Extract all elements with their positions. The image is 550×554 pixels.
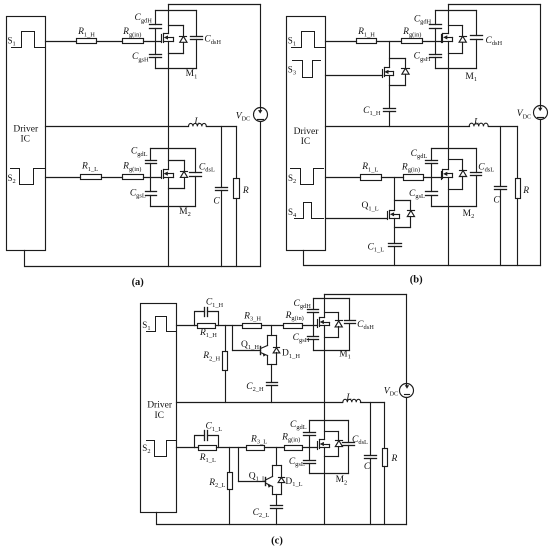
- C1_H branch (c): [195, 312, 205, 326]
- diode D of Q1_H (c): [273, 348, 280, 353]
- resistor R load (a): [234, 179, 240, 199]
- MOSFET module M1 (b) outline: [436, 11, 477, 69]
- capacitor C (a): [216, 188, 228, 191]
- wire R1_H to Rg(in) (b): [377, 41, 402, 43]
- mid rail inductor to R branch (a): [207, 126, 237, 128]
- wire R3_H to Rg(in) (c): [262, 325, 284, 327]
- capacitor Cgd of M1 (a): [150, 25, 162, 29]
- MOSFET symbol of Q1_L (b): [388, 211, 400, 220]
- svg-text:Driver: Driver: [13, 124, 39, 134]
- body diode of M2 (b): [459, 171, 466, 177]
- wire junction to Q1_H (b) drain: [389, 42, 391, 68]
- resistor R1_H (c): [198, 324, 216, 329]
- wire Q1_H emitter to C2_H (c): [271, 365, 273, 383]
- C1_L branch right (c): [208, 436, 219, 448]
- capacitor C1_H (b): [384, 109, 396, 112]
- capacitor Cds of M2 (c): [343, 443, 355, 446]
- resistor R load (c): [383, 449, 388, 467]
- wire M2 source to bottom rail (b): [448, 178, 450, 266]
- body diode of M2 (a): [180, 171, 187, 177]
- wire S2 output to R1_L (b): [326, 177, 361, 179]
- svg-text:IC: IC: [154, 411, 164, 421]
- bottom rail (c): [157, 513, 407, 525]
- driver IC box (c): [141, 304, 177, 513]
- svg-text:C: C: [493, 196, 500, 206]
- wire Rg(in) to M2 gate (c): [303, 447, 318, 449]
- wire node to R2_L (c): [229, 448, 231, 473]
- capacitor Cgs of M1 (c): [308, 337, 319, 340]
- mid rail inductor to R branch (c): [361, 402, 385, 404]
- wire S2 output to node A2 (c): [177, 447, 199, 449]
- wire Q1_H source to C1_H (b): [389, 76, 391, 109]
- pulse waveform S1 (b): [292, 32, 326, 48]
- inner loop of M2 (c): [325, 432, 339, 457]
- MOSFET module M1 (a) outline: [156, 11, 197, 69]
- MOSFET symbol of M1 (c): [318, 318, 330, 328]
- resistor Rg(in) low side (a): [123, 175, 144, 180]
- capacitor Cgs of M1 (a): [150, 55, 162, 58]
- wire M2 source to bottom rail (c): [324, 448, 326, 525]
- wire Q1_L emitter to C2_L (c): [276, 495, 278, 506]
- capacitor Cds of M1 (c): [345, 321, 356, 324]
- MOSFET module M2 (a) outline: [151, 149, 196, 207]
- resistor R1_H (a): [77, 39, 97, 44]
- svg-text:(a): (a): [132, 277, 145, 288]
- svg-text:R: R: [390, 454, 397, 464]
- svg-text:L: L: [193, 117, 199, 127]
- pulse waveform S2 (b): [291, 169, 324, 185]
- bottom rail (b): [304, 251, 541, 266]
- wire C to bottom rail (a): [221, 191, 223, 267]
- resistor Rg(in) high side (b): [402, 39, 423, 44]
- wire node B2 to R3_L (c): [217, 447, 247, 449]
- inductor L (b): [469, 123, 488, 126]
- body diode of Q1_L (b): [407, 211, 414, 217]
- wire Rg(in) to M1 gate (c): [303, 325, 318, 327]
- resistor Rg(in) low side (b): [404, 175, 424, 181]
- resistor R1_L (b): [361, 175, 382, 181]
- capacitor C1_L (b): [389, 244, 402, 247]
- wire Rg(in) to M2 gate (b): [424, 177, 442, 179]
- svg-text:Driver: Driver: [147, 401, 173, 411]
- svg-text:L: L: [345, 393, 351, 403]
- wire Rg(in) to M1 gate (a): [144, 41, 162, 43]
- wire Rg(in) to M2 gate (a): [144, 177, 162, 179]
- DC source Vdc (c): [400, 384, 414, 398]
- wire M1 source to SW to M2 drain (c): [324, 326, 326, 440]
- wire C branch (c): [370, 403, 372, 456]
- MOSFET symbol of Q1_H (b): [383, 68, 394, 78]
- wire S1 output to node A (c): [177, 325, 198, 327]
- resistor R2_H (c): [223, 352, 228, 371]
- body diode of M1 (a): [180, 36, 188, 42]
- DC source Vdc (a): [254, 108, 268, 122]
- pulse waveform S2 (a): [11, 169, 46, 185]
- loop of Q1_H (c): [268, 336, 277, 365]
- svg-text:IC: IC: [301, 137, 311, 147]
- capacitor Cds of M1 (a): [191, 37, 203, 40]
- capacitor Cgd of M2 (a): [146, 161, 157, 164]
- inductor L (a): [189, 123, 207, 126]
- mid rail driver to inductor (b): [326, 126, 470, 128]
- MOSFET symbol of M1 (a): [162, 34, 174, 43]
- inner loop of M1 (a): [169, 26, 184, 54]
- svg-text:C: C: [213, 197, 220, 207]
- wire R2_H to mid rail (c): [225, 371, 227, 403]
- top rail (c): [325, 294, 407, 296]
- MOSFET module M1 (c) outline: [314, 299, 350, 351]
- resistor Rg(in) low side (c): [285, 446, 303, 451]
- capacitor C (b): [495, 187, 507, 190]
- capacitor C (c): [365, 456, 377, 459]
- wire R branch (b): [517, 127, 519, 179]
- MOSFET symbol of M2 (a): [162, 170, 174, 179]
- transistor Q Q1_H (c): [261, 346, 268, 357]
- inner loop of M2 (b): [449, 160, 463, 190]
- capacitor Cgd of M2 (b): [426, 161, 438, 164]
- capacitor Cds of M2 (b): [471, 173, 482, 176]
- wire node to Q1_L base (c): [238, 448, 240, 482]
- wire R branch (c): [384, 403, 386, 449]
- wire C1_L to bottom rail (b): [394, 247, 396, 266]
- wire C2_L to bottom rail (c): [276, 509, 278, 525]
- MOSFET symbol of M1 (b): [442, 34, 453, 43]
- wire M1 drain to top rail (a): [168, 5, 170, 34]
- resistor R2_L (c): [228, 473, 233, 490]
- capacitor C2_L (c): [271, 506, 283, 509]
- wire top rail to Vdc (c): [406, 295, 408, 384]
- wire C to bottom rail (b): [500, 190, 502, 266]
- resistor R1_L (c): [199, 446, 217, 451]
- wire M1 source to SW node to M2 drain (a): [168, 42, 170, 170]
- body diode of M1 (c): [335, 321, 342, 327]
- wire R branch (a): [236, 127, 238, 179]
- pulse waveform S1 (c): [147, 317, 177, 332]
- wire R1_H to Rg(in) (a): [97, 41, 123, 43]
- mid rail driver to inductor (c): [177, 402, 343, 404]
- wire S1 output to R1_H (a): [46, 41, 77, 43]
- wire node to R2_H (c): [225, 326, 227, 352]
- transistor Q Q1_L (c): [266, 477, 273, 488]
- pulse waveform S1 (a): [12, 32, 46, 48]
- MOSFET symbol of M2 (b): [442, 170, 453, 180]
- wire junction to Q1_L (b) drain: [394, 178, 396, 211]
- resistor Rg(in) high side (a): [123, 39, 144, 44]
- capacitor Cgs of M2 (c): [304, 461, 316, 464]
- resistor R1_H (b): [357, 39, 377, 44]
- wire node B to R3_H (c): [216, 325, 243, 327]
- wire node to Q1_L (c) collector: [276, 448, 278, 466]
- MOSFET module M2 (b) outline: [432, 149, 477, 207]
- DC source Vdc (b): [534, 106, 548, 120]
- pulse waveform S4 (b): [295, 203, 324, 219]
- wire node to Q1_H (c) collector: [271, 326, 273, 336]
- wire R3_L to Rg(in) (c): [265, 447, 285, 449]
- body diode of M1 (b): [459, 36, 466, 42]
- top rail (b): [449, 4, 541, 6]
- inner loop of M1 (b): [449, 26, 463, 54]
- svg-text:(c): (c): [271, 535, 283, 546]
- wire M2 source to bottom rail (a): [168, 178, 170, 267]
- capacitor Cgs of M2 (a): [146, 192, 157, 196]
- capacitor Cgs of M2 (b): [426, 192, 438, 196]
- capacitor Cds of M1 (b): [471, 36, 483, 40]
- wire S2 output to R1_L (a): [46, 177, 81, 179]
- base wire to Q1_H (c): [233, 350, 261, 352]
- wire C1_H to mid rail (b): [389, 112, 391, 127]
- mid rail inductor to R branch (b): [489, 126, 518, 128]
- MOSFET symbol of M2 (c): [318, 440, 330, 450]
- wire C branch (b): [500, 127, 502, 187]
- wire S3 to Q1_H gate (b): [326, 75, 383, 77]
- wire R1_L to Rg(in) (a): [102, 177, 123, 179]
- inner loop of M2 (a): [169, 161, 185, 189]
- loop of Q1_L (c): [273, 466, 282, 495]
- svg-text:Driver: Driver: [294, 127, 320, 137]
- pulse waveform S2 (c): [147, 441, 177, 457]
- wire R to bottom rail (c): [384, 467, 386, 525]
- capacitor Cds of M2 (a): [190, 173, 202, 177]
- resistor R load (b): [516, 179, 521, 199]
- driver IC box (a): [7, 17, 46, 251]
- wire node to Q1_H base (c): [232, 326, 234, 351]
- resistor Rg(in) high side (c): [284, 324, 303, 329]
- wire Vdc to bottom rail (c): [406, 398, 408, 525]
- C1_H branch right (c): [208, 312, 219, 326]
- capacitor C2_H (c): [267, 383, 278, 386]
- pulse waveform S3 (b): [293, 61, 321, 78]
- base wire to Q1_L (c): [239, 481, 266, 483]
- wire M1 drain to top rail (c): [324, 295, 326, 318]
- body diode of M2 (c): [335, 441, 342, 447]
- capacitor C1_L (c): [205, 431, 208, 441]
- mid rail driver to inductor (a): [46, 126, 189, 128]
- svg-text:R: R: [242, 186, 249, 196]
- capacitor C1_H (c): [205, 308, 208, 317]
- bottom rail (a): [25, 251, 261, 267]
- inner loop of M1 (c): [325, 313, 339, 338]
- svg-text:IC: IC: [20, 135, 30, 145]
- resistor R3_L (c): [247, 446, 265, 451]
- resistor R1_L (a): [81, 175, 102, 180]
- MOSFET module M2 (c) outline: [310, 421, 349, 474]
- capacitor Cgd of M1 (b): [430, 25, 442, 29]
- wire Q1_L source to C1_L (b): [394, 219, 396, 244]
- svg-text:C: C: [364, 462, 371, 472]
- driver IC box (b): [287, 17, 326, 251]
- top rail (a): [169, 4, 261, 6]
- capacitor Cgd of M2 (c): [304, 433, 316, 436]
- wire top rail to Vdc (a): [260, 5, 262, 109]
- wire R2_L to bottom rail (c): [229, 490, 231, 525]
- inductor L (c): [343, 399, 361, 402]
- wire M1 drain to top rail (b): [448, 5, 450, 34]
- wire R to bottom rail (b): [517, 199, 519, 266]
- resistor R3_H (c): [243, 324, 262, 329]
- wire S4 to Q1_L gate (b): [326, 218, 388, 220]
- C1_L branch (c): [195, 436, 205, 448]
- wire C2_H to mid rail (c): [271, 386, 273, 403]
- wire M1 source to SW node to M2 drain (b): [448, 42, 450, 170]
- wire Rg(in) to M1 gate (b): [423, 41, 442, 43]
- wire R to bottom rail (a): [236, 199, 238, 267]
- wire C branch (a): [221, 127, 223, 188]
- wire S1 output to R1_H (b): [326, 41, 357, 43]
- svg-text:L: L: [473, 118, 479, 128]
- wire Vdc to bottom rail (a): [260, 123, 262, 267]
- wire Vdc to bottom rail (b): [540, 120, 542, 266]
- wire top rail to Vdc (b): [540, 5, 542, 106]
- svg-text:(b): (b): [410, 275, 423, 286]
- capacitor Cgs of M1 (b): [430, 55, 442, 58]
- svg-text:R: R: [522, 186, 529, 196]
- capacitor Cgd of M1 (c): [308, 310, 319, 313]
- inner loop of Q1_H (b): [390, 59, 406, 86]
- body diode of Q1_H (b): [402, 68, 410, 74]
- inner loop of Q1_L (b): [395, 201, 411, 228]
- diode D of Q1_L (c): [278, 477, 285, 482]
- wire R1_L to Rg(in) (b): [382, 177, 404, 179]
- wire C to bottom rail (c): [370, 459, 372, 525]
